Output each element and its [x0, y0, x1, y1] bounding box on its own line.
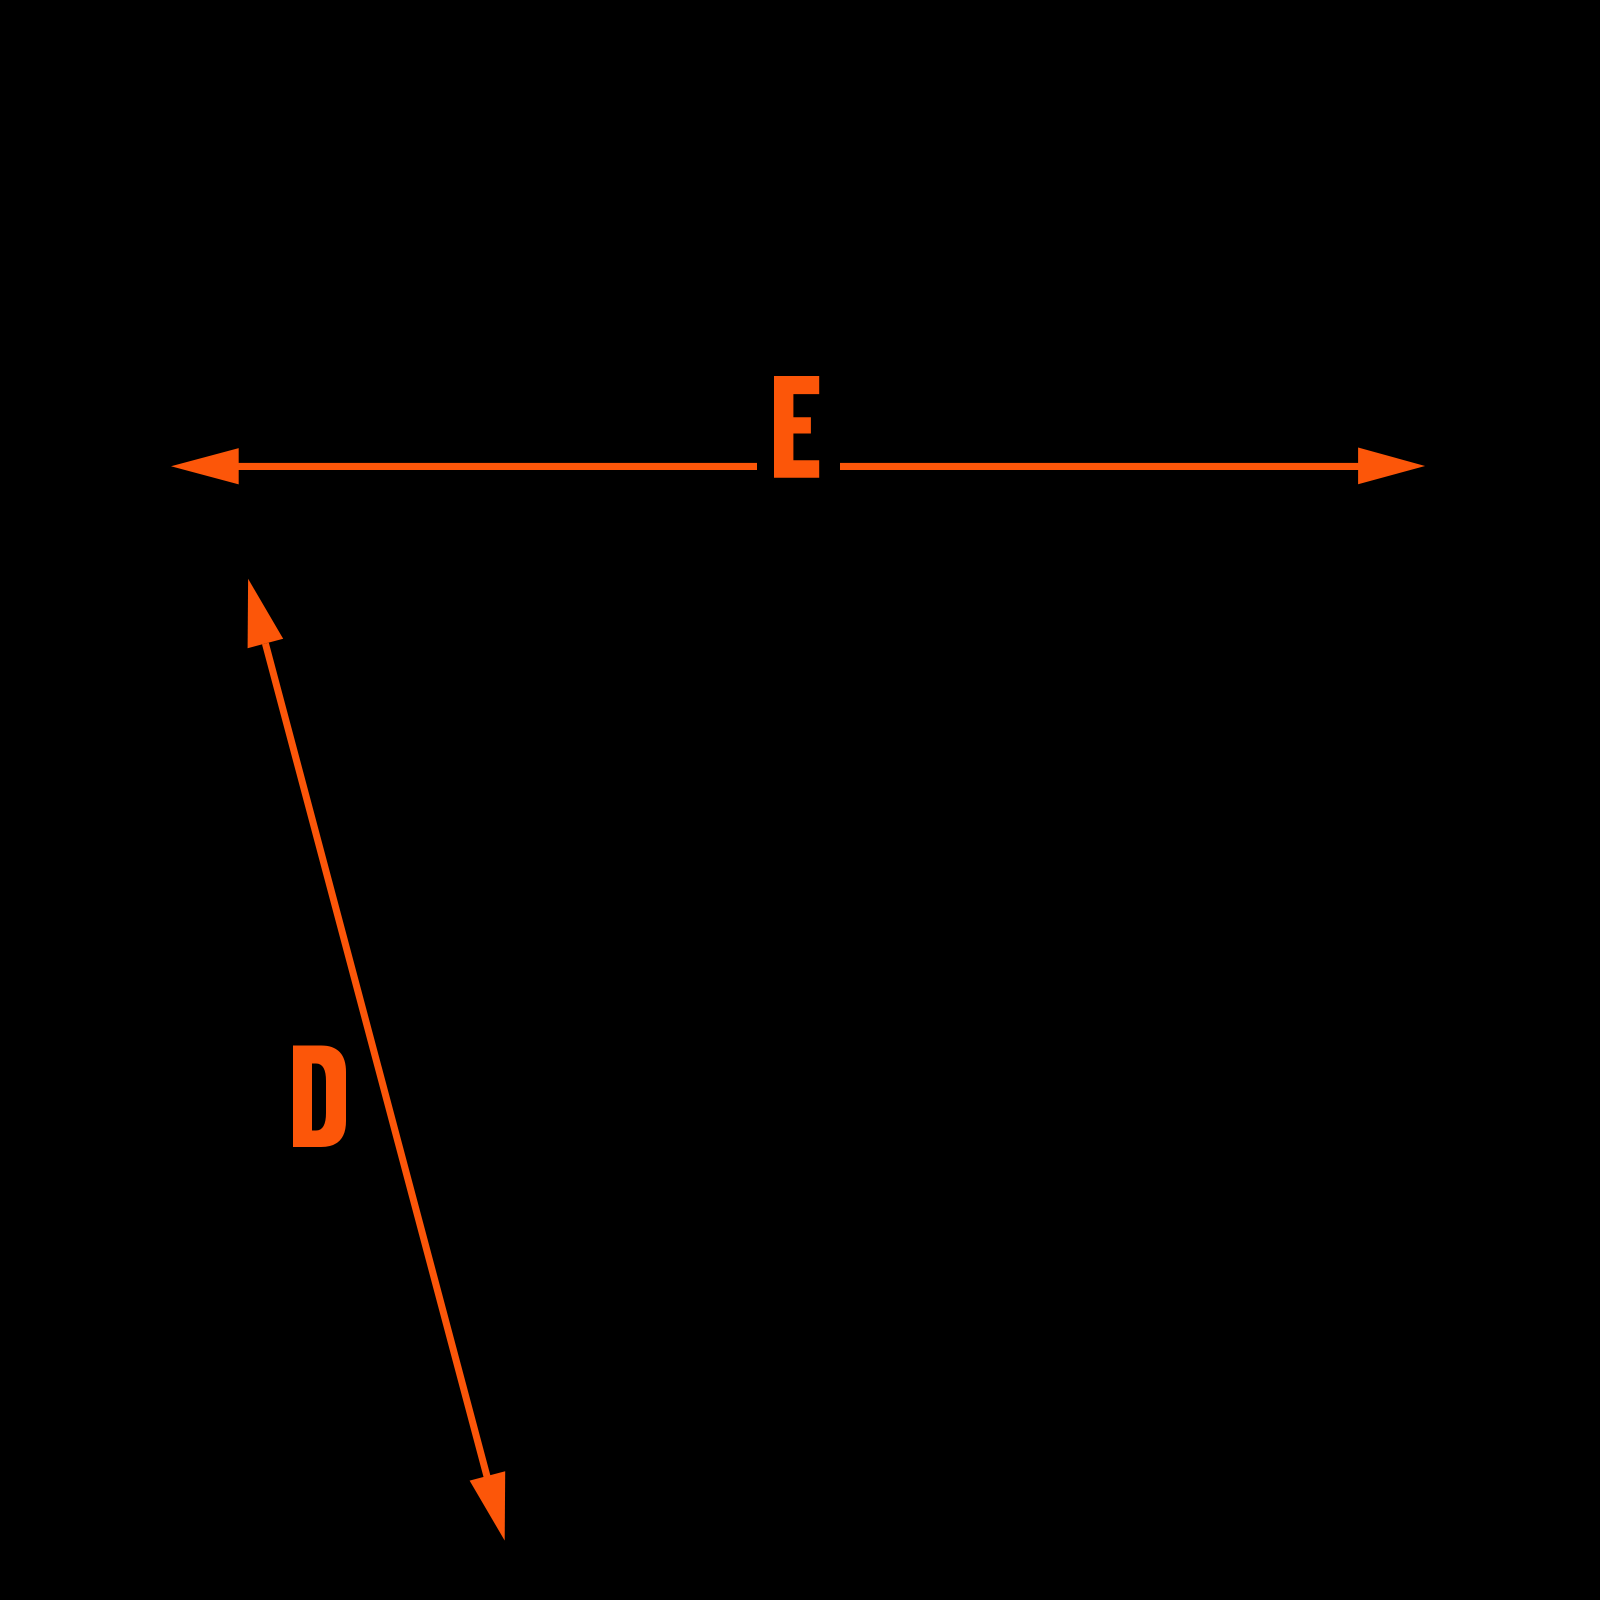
line D top arrowhead	[248, 579, 284, 648]
label E	[774, 376, 819, 478]
line E right segment	[840, 463, 1360, 470]
line E left segment	[236, 463, 757, 470]
label D	[293, 1046, 346, 1148]
line D bottom arrowhead	[470, 1471, 506, 1540]
line D shaft	[262, 643, 491, 1479]
line E left arrowhead	[171, 448, 239, 484]
line E right arrowhead	[1358, 448, 1425, 485]
